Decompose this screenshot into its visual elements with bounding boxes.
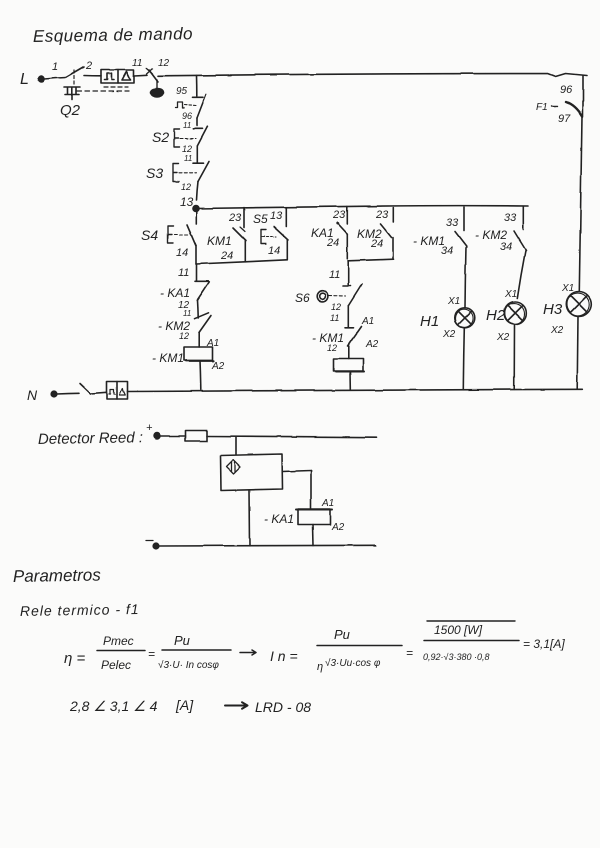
breaker Q2 operator symbol: [64, 87, 80, 100]
svg-text:96: 96: [182, 111, 192, 121]
contact KM1 NC 11-12 middle: [345, 326, 362, 359]
wire F1 to lamp H3: [579, 117, 582, 292]
svg-text:Parametros: Parametros: [13, 565, 102, 586]
svg-text:24: 24: [326, 237, 339, 249]
thermal relay F1 contact 96-97 right branch: [552, 76, 584, 117]
fraction bar Pu/eta sqrt: [317, 645, 402, 647]
svg-text:Pu: Pu: [174, 633, 190, 648]
breaker box N pole: [107, 382, 128, 400]
svg-text:A2: A2: [365, 339, 379, 350]
formula In fraction: [270, 623, 565, 673]
svg-text:11: 11: [184, 154, 192, 163]
coil KM1 A1-A2: [184, 347, 214, 361]
svg-text:24: 24: [220, 250, 233, 262]
arrow to LRD: [225, 702, 248, 708]
svg-text:LRD - 08: LRD - 08: [255, 699, 311, 715]
svg-text:=: =: [406, 646, 413, 660]
wire KM1 coil to N bus: [199, 361, 202, 390]
svg-text:33: 33: [446, 217, 459, 229]
formula result row: [69, 697, 311, 715]
wire + to fuse: [160, 435, 185, 437]
wire sensor box output: [283, 471, 312, 510]
svg-text:X2: X2: [442, 329, 456, 340]
wire H2 to N bus: [513, 324, 515, 389]
svg-text:η =: η =: [64, 650, 85, 667]
svg-text:=: =: [148, 647, 155, 661]
svg-text:Q2: Q2: [60, 102, 81, 119]
svg-text:√3·U· In cosφ: √3·U· In cosφ: [158, 659, 219, 671]
svg-text:11: 11: [183, 309, 191, 318]
terminal L node: [38, 76, 66, 82]
wire sensor box bottom: [249, 490, 252, 546]
svg-text:34: 34: [500, 241, 512, 253]
wire middle branch down: [347, 261, 349, 285]
svg-text:14: 14: [268, 245, 280, 257]
svg-text:η: η: [317, 661, 323, 673]
fraction bar Pmec/Pelec: [97, 650, 145, 652]
reed sensor symbol: [227, 460, 241, 474]
svg-text:12: 12: [158, 58, 170, 69]
svg-text:S2: S2: [152, 129, 169, 145]
fuse F (reed): [185, 431, 207, 442]
svg-text:Esquema de mando: Esquema de mando: [33, 24, 193, 46]
svg-text:12: 12: [179, 331, 189, 341]
svg-text:S6: S6: [295, 291, 310, 305]
wire + rail (reed): [207, 436, 376, 437]
lamp H2 X1-X2: [504, 302, 526, 324]
coil KA1 A1-A2 (reed): [296, 509, 332, 525]
terminal - node (reed): [146, 541, 159, 549]
svg-text:11: 11: [329, 269, 340, 281]
svg-text:A1: A1: [361, 316, 374, 327]
wire H3 to N bus: [576, 317, 579, 390]
svg-text:23: 23: [375, 209, 389, 221]
svg-text:2,8 ∠ 3,1 ∠ 4: 2,8 ∠ 3,1 ∠ 4: [69, 698, 158, 714]
svg-text:23: 23: [332, 209, 346, 221]
svg-text:Detector Reed :: Detector Reed :: [38, 429, 143, 448]
breaker Q2 contact 1-2: [66, 67, 101, 86]
svg-text:12: 12: [327, 343, 337, 353]
svg-text:X2: X2: [496, 332, 510, 343]
contact KM2 NC 11-12: [195, 313, 212, 347]
svg-text:X1: X1: [504, 289, 517, 300]
wire top rail: [158, 74, 587, 77]
svg-text:Pu: Pu: [334, 627, 350, 642]
thermal relay F1 NC contact 95-96: [176, 95, 207, 119]
svg-text:X1: X1: [447, 296, 460, 307]
svg-text:X2: X2: [550, 325, 564, 336]
svg-text:[A]: [A]: [175, 697, 194, 713]
wire N bus: [128, 389, 583, 391]
svg-text:- KA1: - KA1: [264, 512, 294, 526]
svg-text:11: 11: [330, 313, 339, 323]
wire - rail (reed): [159, 544, 376, 547]
svg-text:11: 11: [132, 58, 142, 69]
svg-text:L: L: [20, 71, 29, 88]
formula eta fraction: [64, 633, 219, 672]
terminal + node (reed): [154, 433, 160, 439]
svg-text:Rele termico - f1: Rele termico - f1: [20, 601, 140, 619]
wire bus from node 13: [196, 206, 529, 209]
svg-text:S3: S3: [146, 165, 163, 181]
svg-text:= 3,1[A]: = 3,1[A]: [523, 637, 565, 651]
wire box to S1: [134, 74, 147, 77]
emergency stop S1 mushroom head: [151, 80, 164, 97]
svg-text:0,92·√3·380 ·0,8: 0,92·√3·380 ·0,8: [423, 652, 489, 662]
switch on N line: [57, 384, 107, 395]
svg-text:- KA1: - KA1: [160, 286, 190, 300]
svg-text:S4: S4: [141, 227, 158, 243]
svg-text:KM1: KM1: [207, 234, 232, 248]
rail F1 to S2: [196, 118, 198, 126]
svg-text:33: 33: [504, 212, 517, 224]
mechanical link dashed: [77, 87, 129, 91]
svg-text:1500 [W]: 1500 [W]: [434, 623, 483, 637]
wire connector left group: [196, 260, 287, 264]
svg-text:11: 11: [183, 121, 191, 130]
rail S2 to S3: [196, 146, 198, 163]
coil KM2 A1-A2: [334, 359, 364, 372]
svg-text:24: 24: [370, 238, 383, 250]
svg-text:+: +: [146, 422, 153, 434]
fraction bar 1500W: [424, 640, 519, 642]
contact KM2 NO 33-34: [514, 206, 526, 298]
svg-text:H1: H1: [420, 313, 439, 330]
svg-text:95: 95: [176, 86, 188, 97]
svg-text:11: 11: [178, 267, 189, 279]
contact KM1 NO 23-24: [233, 208, 246, 262]
terminal N node: [51, 391, 57, 397]
svg-text:12: 12: [181, 182, 191, 192]
svg-text:96: 96: [560, 84, 573, 96]
fraction bar Pu/sqrt: [162, 649, 231, 651]
svg-text:A2: A2: [211, 361, 225, 372]
svg-text:13: 13: [180, 195, 194, 209]
pushbutton S5 NO contact 13-14: [261, 207, 288, 259]
svg-text:12: 12: [182, 144, 192, 154]
svg-text:Pelec: Pelec: [101, 658, 131, 672]
lamp H1 X1-X2: [455, 308, 475, 328]
pushbutton S4 NO contact 13-14: [168, 209, 196, 265]
left coil branch: contact KA1 NO 11-12: [195, 264, 209, 318]
svg-text:F1: F1: [536, 102, 548, 113]
rail S3 to node 13: [197, 182, 199, 201]
svg-text:23: 23: [228, 212, 242, 224]
svg-text:14: 14: [176, 247, 188, 259]
svg-text:S5: S5: [253, 212, 268, 226]
svg-text:A1: A1: [321, 498, 334, 509]
emergency stop S1 contact 11-12: [147, 69, 159, 83]
bracket over 1500 W: [427, 620, 515, 622]
contact KM2 NO 23-24: [381, 208, 394, 260]
svg-text:13: 13: [270, 210, 283, 222]
lamp H3 X1-X2: [566, 292, 591, 317]
svg-text:√3·Uu·cos φ: √3·Uu·cos φ: [325, 657, 381, 669]
wire H1 to N bus: [463, 328, 464, 390]
wire connector middle group: [348, 259, 394, 261]
svg-text:H3: H3: [543, 301, 563, 318]
svg-text:H2: H2: [486, 307, 506, 324]
arrow to In: [240, 650, 256, 655]
svg-text:A2: A2: [331, 522, 345, 533]
svg-text:2: 2: [85, 60, 92, 72]
svg-text:Pmec: Pmec: [103, 634, 134, 648]
node 13 junction: [193, 206, 199, 212]
svg-text:97: 97: [558, 113, 571, 125]
svg-text:I n =: I n =: [270, 648, 298, 664]
svg-text:1: 1: [52, 61, 58, 73]
svg-text:12: 12: [331, 302, 341, 312]
svg-text:N: N: [27, 387, 38, 403]
svg-text:X1: X1: [561, 283, 574, 294]
contact KM1 NO 33-34: [455, 207, 467, 308]
reed sensor box: [221, 454, 283, 491]
wire KM2 coil to N bus: [349, 372, 351, 390]
contact KA1 NO 23-24: [336, 207, 347, 259]
svg-text:A1: A1: [206, 338, 219, 349]
pushbutton S2 NC contact 11-12: [174, 127, 208, 148]
svg-text:- KM2: - KM2: [475, 228, 507, 242]
breaker Q2 trip-unit box (thermal + magnetic): [101, 70, 134, 83]
svg-text:- KM1: - KM1: [152, 351, 184, 365]
svg-text:34: 34: [441, 245, 453, 257]
wire KA1 coil to minus rail: [312, 525, 315, 546]
switch S6 NO contact 11-12: [317, 284, 362, 327]
left rail upper: [196, 76, 198, 97]
pushbutton S3 NC contact 11-12: [173, 162, 209, 182]
wire rail to sensor box: [235, 437, 237, 454]
